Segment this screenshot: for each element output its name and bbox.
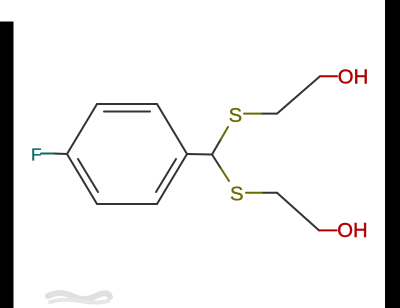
svg-text:OH: OH — [337, 220, 367, 242]
svg-text:S: S — [229, 105, 243, 127]
svg-text:F: F — [31, 145, 42, 165]
svg-text:OH: OH — [338, 67, 368, 89]
svg-text:S: S — [230, 183, 244, 205]
